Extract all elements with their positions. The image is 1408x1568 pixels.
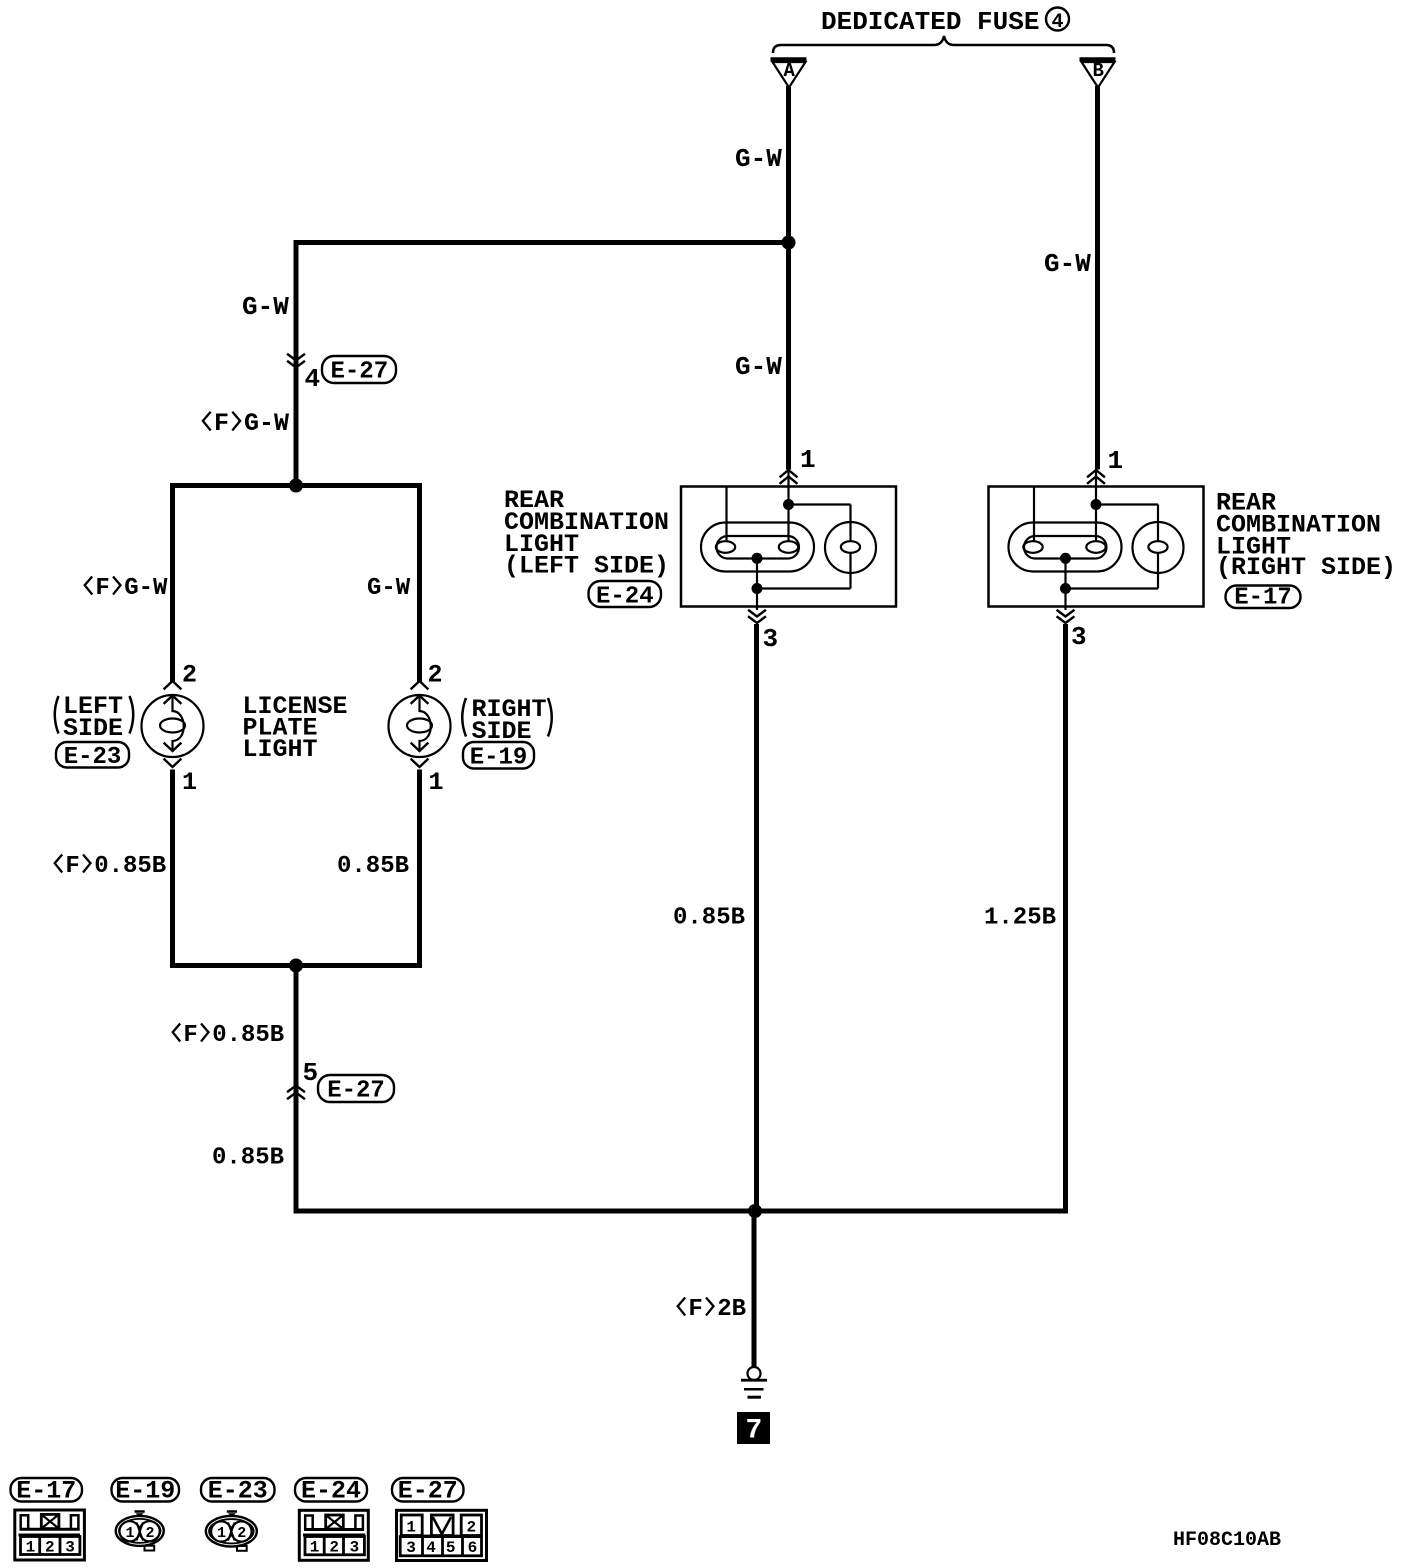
tail lamp feed stub (right box) [1033, 488, 1035, 542]
brace over fuse terminals [773, 36, 1114, 53]
svg-text:F: F [183, 1022, 197, 1049]
pin 1 entry chevrons (right box) [1088, 470, 1104, 505]
wire bottom horizontal ground bus [294, 1209, 1069, 1214]
connector pinout E-27 [397, 1510, 487, 1560]
connector pinout E-23 [206, 1512, 257, 1551]
svg-text:E-23: E-23 [64, 744, 122, 771]
inline connector E-27 pin 5 chevrons [288, 1086, 304, 1099]
tail lamp housing stadium (right box) [1009, 523, 1122, 572]
license plate light wire loop (box) [170, 483, 422, 968]
wire B vertical G-W from terminal B to right rear light pin 1 [1095, 86, 1100, 470]
pin 1 entry chevrons (left box) [781, 470, 797, 505]
pin 3 exit (right box) [1058, 589, 1074, 624]
svg-text:1: 1 [800, 445, 816, 475]
svg-text:1: 1 [182, 768, 197, 797]
connector label box E-23 (bottom row) [201, 1477, 275, 1506]
svg-text:E-17: E-17 [16, 1477, 76, 1506]
wire left vertical down to license plate light loop [294, 240, 299, 488]
svg-text:2: 2 [45, 1539, 55, 1557]
stop lamp feed into stadium (left box) [787, 505, 789, 542]
svg-text:G-W: G-W [367, 575, 411, 602]
connector label box E-24 (bottom row) [295, 1477, 367, 1506]
svg-text:0.85B: 0.85B [94, 853, 166, 880]
license plate light bulb right (E-19) [389, 681, 451, 767]
filament common node (right box) [1060, 553, 1071, 564]
wire label (F)0.85B (left) [55, 853, 167, 880]
svg-text:4: 4 [426, 1539, 436, 1557]
connector pinout E-19 [116, 1512, 164, 1551]
svg-text:7: 7 [746, 1416, 763, 1447]
svg-text:E-27: E-27 [398, 1477, 458, 1506]
connector box E-17 [1226, 585, 1301, 612]
wire ground stem 2B [752, 1211, 757, 1368]
svg-text:6: 6 [468, 1539, 478, 1557]
svg-text:(LEFT SIDE): (LEFT SIDE) [504, 552, 669, 581]
connector box E-23 [56, 742, 129, 771]
ground symbol [741, 1367, 767, 1397]
junction top of loop [289, 479, 303, 493]
svg-text:E-27: E-27 [327, 1078, 385, 1105]
svg-text:G-W: G-W [735, 144, 782, 174]
svg-text:A: A [784, 60, 796, 82]
filament common node (left box) [752, 553, 763, 564]
stop lamp feed into stadium (right box) [1095, 505, 1097, 542]
rear combination light left side box E-24 [681, 487, 896, 607]
svg-text:F: F [688, 1296, 702, 1323]
rear combination light right side box E-17 [989, 487, 1204, 607]
svg-text:F: F [214, 409, 229, 438]
internal wiring from stop lamp to ground node (right box) [1066, 553, 1159, 589]
connector terminal A (triangle) [771, 60, 807, 88]
connector pinout E-24 [299, 1510, 368, 1560]
label REAR COMBINATION LIGHT (RIGHT SIDE) [1216, 489, 1396, 583]
label REAR COMBINATION LIGHT (LEFT SIDE) [504, 486, 669, 581]
svg-text:4: 4 [305, 364, 321, 394]
svg-text:2B: 2B [717, 1296, 746, 1323]
svg-text:4: 4 [1052, 11, 1064, 34]
junction on wire A [782, 236, 796, 250]
svg-text:SIDE: SIDE [63, 714, 123, 743]
svg-text:3: 3 [1071, 622, 1087, 652]
wire horizontal branch at top [294, 240, 792, 245]
svg-text:3: 3 [406, 1539, 416, 1557]
svg-text:E-27: E-27 [331, 359, 389, 386]
junction bottom of loop [289, 959, 303, 973]
svg-text:2: 2 [467, 1519, 477, 1537]
svg-text:E-23: E-23 [208, 1477, 268, 1506]
stop lamp circle (left box) [825, 522, 876, 573]
svg-text:2: 2 [182, 661, 197, 690]
svg-text:1.25B: 1.25B [984, 905, 1056, 932]
svg-text:E-24: E-24 [596, 584, 654, 611]
svg-text:3: 3 [763, 624, 779, 654]
svg-text:3: 3 [65, 1539, 75, 1557]
license plate light bulb left (E-23) [142, 681, 204, 767]
wire ground run from loop bottom [294, 963, 299, 1214]
connector box E-27 (bottom) [318, 1075, 394, 1105]
wire label (F)G-W [203, 409, 289, 438]
svg-text:0.85B: 0.85B [212, 1145, 284, 1172]
junction ground bus [748, 1204, 762, 1218]
svg-text:1: 1 [26, 1539, 36, 1557]
connector box E-27 (top) [322, 356, 396, 386]
svg-text:0.85B: 0.85B [673, 905, 745, 932]
svg-text:1: 1 [126, 1525, 135, 1542]
internal wiring to stop lamp (right box) [1096, 505, 1158, 542]
label (LEFT SIDE) [55, 692, 134, 743]
wire right box ground 1.25B [1063, 624, 1068, 1214]
wire label (F)0.85B (lower) [173, 1022, 285, 1049]
connector terminal B (triangle) [1080, 60, 1116, 88]
wire A vertical G-W from terminal A to left rear light pin 1 [786, 86, 791, 470]
svg-text:E-17: E-17 [1234, 585, 1292, 612]
svg-text:1: 1 [217, 1525, 226, 1542]
ground node (right box) [1060, 583, 1071, 594]
svg-text:(RIGHT SIDE): (RIGHT SIDE) [1216, 553, 1396, 582]
connector box E-24 [589, 581, 662, 611]
svg-text:F: F [95, 575, 109, 602]
wire label (F)G-W (left branch) [85, 575, 168, 602]
svg-text:0.85B: 0.85B [337, 853, 409, 880]
svg-text:HF08C10AB: HF08C10AB [1173, 1529, 1281, 1552]
svg-text:DEDICATED FUSE: DEDICATED FUSE [821, 7, 1039, 37]
connector label box E-27 (bottom row) [392, 1477, 464, 1506]
svg-text:1: 1 [406, 1519, 416, 1537]
ground reference 7 box [737, 1412, 770, 1447]
tail lamp feed stub (left box) [725, 488, 727, 542]
svg-text:G-W: G-W [244, 409, 289, 438]
label LICENSE PLATE LIGHT [243, 692, 348, 764]
inline connector E-27 pin 4 chevrons [288, 355, 304, 368]
svg-text:2: 2 [329, 1539, 339, 1557]
svg-text:G-W: G-W [735, 352, 782, 382]
svg-text:3: 3 [350, 1539, 360, 1557]
internal node (left box) [783, 499, 794, 510]
wire left box ground 0.85B [754, 624, 759, 1211]
common link (left box) [756, 558, 758, 588]
svg-text:1: 1 [429, 768, 444, 797]
svg-text:G-W: G-W [1044, 249, 1091, 279]
svg-text:1: 1 [1108, 446, 1124, 476]
svg-text:G-W: G-W [242, 292, 289, 322]
svg-text:2: 2 [237, 1525, 246, 1542]
svg-text:2: 2 [146, 1525, 155, 1542]
circled 4 fuse number [1046, 8, 1069, 35]
svg-text:LIGHT: LIGHT [243, 735, 318, 764]
tail lamp housing stadium (left box) [701, 523, 814, 572]
svg-text:5: 5 [446, 1539, 456, 1557]
wire label (F)2B [678, 1296, 746, 1323]
connector label box E-19 (bottom row) [112, 1477, 180, 1506]
label (RIGHT SIDE) [462, 695, 552, 746]
internal node (right box) [1091, 499, 1102, 510]
svg-text:1: 1 [310, 1539, 320, 1557]
svg-text:E-19: E-19 [115, 1477, 175, 1506]
stop lamp circle (right box) [1133, 522, 1184, 573]
svg-text:E-19: E-19 [470, 745, 528, 772]
svg-text:B: B [1093, 60, 1104, 82]
svg-text:2: 2 [428, 661, 443, 690]
svg-text:5: 5 [303, 1058, 319, 1088]
connector label box E-17 (bottom row) [11, 1477, 83, 1506]
connector box E-19 [463, 742, 534, 772]
internal wiring from stop lamp to ground node (left box) [757, 553, 851, 589]
ground node (left box) [752, 583, 763, 594]
internal wiring to stop lamp (left box) [789, 505, 851, 542]
svg-text:E-24: E-24 [301, 1477, 361, 1506]
connector pinout E-17 [15, 1510, 85, 1560]
pin 3 exit (left box) [749, 589, 765, 624]
svg-text:G-W: G-W [124, 575, 168, 602]
svg-text:F: F [65, 853, 79, 880]
svg-text:0.85B: 0.85B [212, 1022, 284, 1049]
common link (right box) [1064, 558, 1066, 588]
